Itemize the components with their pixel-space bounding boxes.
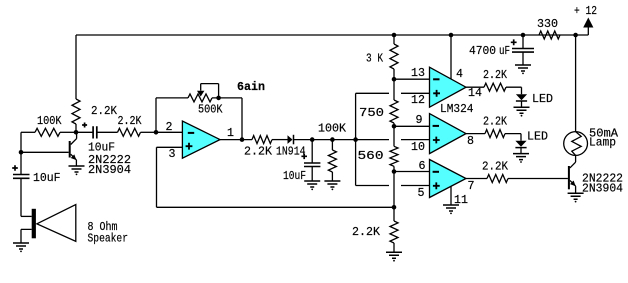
svg-text:2.2K: 2.2K (91, 105, 117, 118)
svg-text:2.2K: 2.2K (244, 146, 272, 159)
svg-text:2N3904: 2N3904 (582, 183, 623, 196)
node comparator signal (353, 137, 358, 142)
resistor R3 2.2K input to opamp (118, 128, 141, 136)
svg-text:2.2K: 2.2K (482, 161, 508, 174)
node peak detector (310, 137, 315, 142)
svg-text:7: 7 (468, 180, 475, 193)
resistor R4 2.2K (252, 136, 272, 144)
ground C4 (515, 65, 531, 71)
svg-text:1: 1 (227, 127, 234, 140)
svg-text:1N914: 1N914 (276, 146, 306, 159)
ground Q2 emitter (568, 193, 584, 199)
svg-text:9: 9 (416, 114, 423, 127)
svg-text:LM324: LM324 (440, 103, 474, 116)
wire pin13 (394, 78, 430, 80)
svg-text:330: 330 (537, 18, 558, 31)
potentiometer 500K gain (156, 98, 188, 132)
wire U2a output (466, 86, 484, 88)
speaker 8 Ohm (microphone) (21, 215, 32, 217)
ground LED1 (514, 107, 530, 113)
svg-text:LED: LED (532, 93, 553, 106)
node ladder reference bottom (392, 205, 397, 210)
op-amp U2c LM324 comparator (430, 160, 467, 198)
svg-text:6: 6 (419, 160, 426, 173)
svg-text:500K: 500K (198, 103, 223, 116)
wire 100K left drop to base node (20, 132, 22, 152)
svg-text:100K: 100K (37, 115, 62, 128)
node collector of Q1 (74, 130, 79, 135)
svg-text:+ 12: + 12 (574, 5, 597, 18)
svg-text:14: 14 (468, 87, 482, 100)
node base of Q1 (19, 150, 24, 155)
svg-text:2N3904: 2N3904 (88, 164, 131, 177)
capacitor C3 10uF peak hold (311, 140, 313, 163)
svg-text:560: 560 (358, 150, 384, 163)
svg-text:2.2K: 2.2K (483, 116, 507, 129)
svg-text:10uF: 10uF (283, 170, 306, 183)
wire top +12 supply rail (76, 34, 588, 36)
svg-text:100K: 100K (318, 123, 346, 136)
node lamp supply (573, 33, 578, 38)
svg-text:10uF: 10uF (33, 172, 61, 185)
ground speaker (13, 243, 29, 249)
ground pin11 (443, 205, 459, 211)
ground LED2 (513, 154, 529, 160)
wire pin4 supply stub (450, 35, 452, 79)
svg-text:3 K: 3 K (366, 53, 383, 66)
svg-text:2.2K: 2.2K (352, 226, 380, 239)
svg-text:6ain: 6ain (237, 81, 265, 94)
lamp 50mA (575, 35, 577, 132)
wire signal to pin10 (crosses ladder) (356, 139, 430, 141)
svg-text:750: 750 (359, 107, 384, 120)
ground Q1 emitter (69, 166, 85, 172)
svg-text:4: 4 (456, 68, 463, 81)
svg-text:10: 10 (411, 141, 425, 154)
svg-text:12: 12 (411, 94, 425, 107)
svg-text:5: 5 (418, 187, 425, 200)
wire U2c output (466, 178, 487, 180)
wire pin6 (394, 171, 430, 173)
svg-text:8: 8 (467, 135, 474, 148)
resistor R7 750 ladder (393, 79, 395, 100)
svg-text:2.2K: 2.2K (118, 115, 142, 128)
wire U1 output (220, 139, 252, 141)
svg-text:LED: LED (527, 131, 548, 144)
resistor R2 2.2K collector load (72, 99, 80, 124)
wire U2b output (466, 133, 485, 135)
transistor Q2 2N2222 lamp driver (568, 166, 570, 189)
resistor R11 2.2K LED2 (485, 130, 505, 138)
svg-text:Speaker: Speaker (88, 233, 129, 246)
ground ladder (386, 252, 402, 258)
svg-text:2.2K: 2.2K (483, 69, 507, 82)
resistor R6 3K ladder (393, 35, 395, 44)
LED D3 (515, 141, 526, 147)
op-amp U1 gain stage (182, 121, 220, 158)
resistor R12 2.2K base (487, 175, 508, 183)
op-amp U2a LM324 comparator (430, 67, 467, 107)
wire pot to U1 output node (241, 98, 243, 140)
svg-text:3: 3 (169, 148, 176, 161)
svg-text:uF: uF (499, 45, 510, 58)
svg-text:Lamp: Lamp (589, 137, 616, 150)
node ladder A (392, 77, 397, 82)
wire pin11 ground stub (450, 187, 452, 206)
capacitor C2 10uF speaker coupling (20, 152, 22, 174)
resistor R5 100K bleed (331, 140, 333, 150)
node 100K bleed (330, 137, 335, 142)
node opamp inverting input (154, 130, 159, 135)
resistor R1 100K feedback (21, 131, 35, 133)
wire 2.2K to collector node (75, 124, 77, 132)
resistor R8 560 ladder (393, 126, 395, 146)
diode D1 1N914 (288, 135, 293, 144)
capacitor C1 10uF coupling (collector to opamp) (76, 131, 93, 133)
wire pin9 (394, 125, 430, 127)
LED D2 (516, 94, 527, 100)
ground R5 (324, 181, 340, 187)
ground C3 (304, 181, 320, 187)
resistor R10 2.2K LED1 (484, 83, 506, 91)
+12 supply arrow (587, 28, 589, 36)
svg-text:10uF: 10uF (88, 142, 115, 155)
node ladder B (392, 124, 397, 129)
op-amp U2b LM324 comparator (430, 114, 467, 154)
transistor Q1 2N2222 preamp (69, 141, 71, 158)
wire left rail drop to 2.2K collector resistor (75, 35, 77, 99)
wire base node to Q1 base (21, 151, 69, 153)
wire U1 pin3 to reference ladder (157, 147, 395, 207)
node ladder top (392, 33, 397, 38)
svg-text:2: 2 (166, 121, 173, 134)
wire signal bracket to pins 12 and 5 (355, 93, 357, 185)
svg-text:4700: 4700 (469, 45, 496, 58)
node U1 output (240, 137, 245, 142)
resistor R13 330 lamp supply (539, 31, 560, 39)
svg-text:13: 13 (411, 67, 425, 80)
node pin4 supply (449, 33, 454, 38)
node ladder C (392, 169, 397, 174)
resistor R9 2.2K ladder bottom (393, 207, 395, 221)
capacitor C4 4700uF filter (521, 33, 526, 38)
